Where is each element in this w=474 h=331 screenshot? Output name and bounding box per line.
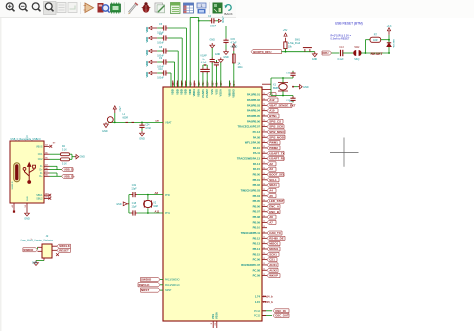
svg-text:CC1: CC1 bbox=[38, 153, 43, 156]
svg-text:27: 27 bbox=[193, 82, 197, 85]
svg-text:DFU: DFU bbox=[323, 51, 329, 55]
svg-text:1A: 1A bbox=[238, 63, 241, 66]
svg-text:LED_STAT: LED_STAT bbox=[269, 199, 284, 203]
svg-text:100nF: 100nF bbox=[157, 78, 164, 80]
svg-text:TIM4CH3/PB.11: TIM4CH3/PB.11 bbox=[241, 231, 261, 235]
svg-text:C13: C13 bbox=[339, 46, 344, 49]
svg-text:TIM2CH1/PB.03: TIM2CH1/PB.03 bbox=[241, 188, 261, 192]
svg-text:12: 12 bbox=[263, 152, 265, 154]
svg-text:12: 12 bbox=[263, 130, 265, 132]
svg-text:SDA1: SDA1 bbox=[269, 183, 277, 187]
svg-text:CC2: CC2 bbox=[38, 158, 43, 161]
svg-text:SW2: SW2 bbox=[354, 46, 360, 49]
svg-text:12: 12 bbox=[263, 221, 265, 223]
svg-text:+VDD: +VDD bbox=[230, 45, 237, 49]
svg-text:A7: A7 bbox=[269, 220, 273, 224]
svg-text:A4: A4 bbox=[269, 189, 273, 193]
svg-text:SCL1: SCL1 bbox=[269, 178, 277, 182]
svg-text:VDD: VDD bbox=[175, 89, 179, 95]
svg-text:0.1uF: 0.1uF bbox=[337, 58, 344, 61]
svg-text:12: 12 bbox=[263, 146, 265, 148]
svg-text:12: 12 bbox=[263, 258, 265, 260]
svg-text:32M: 32M bbox=[153, 206, 158, 208]
svg-text:GND: GND bbox=[210, 39, 216, 42]
svg-text:PC15: PC15 bbox=[254, 315, 261, 318]
svg-text:PC.09: PC.09 bbox=[253, 274, 261, 278]
svg-text:A12: A12 bbox=[269, 98, 275, 102]
svg-text:C10: C10 bbox=[158, 69, 163, 71]
svg-text:PA6/PB.06: PA6/PB.06 bbox=[247, 119, 261, 123]
svg-text:GND: GND bbox=[102, 130, 108, 133]
svg-text:PB.00: PB.00 bbox=[253, 173, 261, 177]
svg-text:AUX1: AUX1 bbox=[269, 263, 277, 267]
svg-text:PA.11: PA.11 bbox=[253, 151, 261, 155]
svg-text:PA.14: PA.14 bbox=[253, 162, 261, 166]
svg-text:BOOT_SEL: BOOT_SEL bbox=[269, 173, 285, 177]
svg-text:+3V3: +3V3 bbox=[118, 106, 120, 112]
svg-text:USB_D-: USB_D- bbox=[64, 168, 74, 172]
svg-text:PA3/PB.03: PA3/PB.03 bbox=[247, 103, 261, 107]
svg-text:12: 12 bbox=[263, 199, 265, 201]
svg-text:NRST: NRST bbox=[141, 288, 149, 292]
svg-text:12: 12 bbox=[263, 253, 265, 255]
svg-text:PB.12: PB.12 bbox=[253, 236, 261, 240]
svg-text:VDD: VDD bbox=[184, 89, 188, 95]
svg-text:PA.08: PA.08 bbox=[253, 135, 261, 139]
svg-text:VDD: VDD bbox=[145, 27, 149, 33]
svg-text:BTN1: BTN1 bbox=[269, 114, 277, 118]
svg-text:BUZZER/PC.07: BUZZER/PC.07 bbox=[241, 263, 260, 267]
svg-text:VSSA: VSSA bbox=[219, 89, 223, 96]
svg-text:CS1: CS1 bbox=[269, 258, 275, 262]
svg-text:GND: GND bbox=[312, 58, 318, 61]
svg-text:GND: GND bbox=[116, 204, 121, 206]
svg-text:GND: GND bbox=[80, 156, 86, 159]
svg-text:VDD: VDD bbox=[188, 89, 192, 95]
svg-text:12: 12 bbox=[263, 178, 265, 180]
svg-text:100nF: 100nF bbox=[157, 43, 164, 45]
svg-text:PB.06: PB.06 bbox=[253, 204, 261, 208]
svg-text:SW1: SW1 bbox=[295, 38, 301, 41]
svg-text:12: 12 bbox=[263, 210, 265, 212]
svg-text:12: 12 bbox=[263, 114, 265, 116]
svg-text:C19: C19 bbox=[132, 185, 137, 187]
svg-text:PB.10: PB.10 bbox=[253, 226, 261, 230]
svg-text:GND: GND bbox=[24, 218, 30, 221]
svg-text:SBU2: SBU2 bbox=[36, 197, 43, 200]
svg-text:A5: A5 bbox=[269, 194, 273, 198]
svg-text:VDDA: VDDA bbox=[197, 89, 201, 97]
svg-text:12: 12 bbox=[263, 141, 265, 143]
svg-text:PB.13: PB.13 bbox=[253, 242, 261, 246]
svg-text:VSS: VSS bbox=[210, 89, 214, 95]
svg-text:PH1: PH1 bbox=[165, 212, 170, 215]
svg-text:12: 12 bbox=[263, 215, 265, 217]
svg-text:PB.02: PB.02 bbox=[253, 183, 261, 187]
svg-text:12: 12 bbox=[263, 93, 265, 95]
svg-text:+3.3: +3.3 bbox=[387, 25, 392, 28]
svg-text:1.74: 1.74 bbox=[255, 295, 261, 299]
svg-text:SPI2_MISO: SPI2_MISO bbox=[269, 130, 285, 134]
svg-text:OSC_OUT: OSC_OUT bbox=[275, 314, 289, 318]
svg-text:12: 12 bbox=[263, 173, 265, 175]
svg-text:USB_D+: USB_D+ bbox=[64, 174, 75, 178]
svg-text:SPI2_MOSI: SPI2_MOSI bbox=[269, 135, 284, 139]
svg-text:PB.14: PB.14 bbox=[253, 247, 261, 251]
svg-text:10R: 10R bbox=[373, 39, 378, 42]
svg-text:PC14: PC14 bbox=[254, 310, 261, 313]
svg-text:PB.05: PB.05 bbox=[253, 199, 261, 203]
svg-text:VCAP1: VCAP1 bbox=[201, 89, 205, 98]
svg-text:USB RESET (BTM): USB RESET (BTM) bbox=[335, 22, 363, 26]
svg-text:12: 12 bbox=[263, 109, 265, 111]
svg-text:12: 12 bbox=[263, 274, 265, 276]
svg-text:SKQ: SKQ bbox=[354, 58, 359, 61]
svg-text:A11: A11 bbox=[155, 210, 160, 214]
svg-text:VDD: VDD bbox=[145, 37, 149, 43]
svg-text:5.1K: 5.1K bbox=[62, 164, 67, 166]
svg-text:PWM2: PWM2 bbox=[269, 146, 278, 150]
svg-text:MISO1: MISO1 bbox=[269, 242, 278, 246]
svg-text:100n: 100n bbox=[238, 67, 244, 69]
svg-text:A3: A3 bbox=[269, 167, 273, 171]
svg-text:VBUS: VBUS bbox=[228, 89, 232, 97]
svg-text:A2: A2 bbox=[269, 162, 273, 166]
svg-text:PB.15: PB.15 bbox=[253, 252, 261, 256]
svg-text:GND: GND bbox=[32, 262, 38, 265]
svg-text:12: 12 bbox=[263, 125, 265, 127]
svg-text:PA13/SWDIO: PA13/SWDIO bbox=[165, 279, 180, 282]
svg-text:PA2/PB.02: PA2/PB.02 bbox=[247, 98, 261, 102]
svg-text:12: 12 bbox=[263, 194, 265, 196]
svg-text:C18: C18 bbox=[132, 203, 137, 205]
svg-text:PB.08: PB.08 bbox=[253, 215, 261, 219]
svg-text:12: 12 bbox=[263, 104, 265, 106]
svg-text:GND: GND bbox=[215, 53, 221, 56]
svg-text:12: 12 bbox=[263, 263, 265, 265]
svg-text:C24: C24 bbox=[145, 124, 150, 126]
svg-text:PC.13: PC.13 bbox=[253, 130, 261, 134]
svg-text:CAN_TX: CAN_TX bbox=[269, 231, 281, 235]
svg-text:PC.06: PC.06 bbox=[253, 258, 261, 262]
svg-text:PB.07: PB.07 bbox=[253, 210, 261, 214]
svg-text:12: 12 bbox=[263, 269, 265, 271]
svg-text:PA4/PB.04: PA4/PB.04 bbox=[247, 109, 261, 113]
svg-text:PA5/PB.05: PA5/PB.05 bbox=[247, 114, 261, 118]
svg-text:AUX2: AUX2 bbox=[269, 268, 277, 272]
svg-text:SPI2_CS: SPI2_CS bbox=[269, 119, 281, 123]
svg-text:VCAP: VCAP bbox=[200, 55, 207, 58]
svg-text:12: 12 bbox=[263, 189, 265, 191]
svg-text:12: 12 bbox=[263, 205, 265, 207]
svg-text:TRACECLK/PE.07: TRACECLK/PE.07 bbox=[238, 125, 261, 129]
svg-text:Conn_02x02_Counter_Clockwise: Conn_02x02_Counter_Clockwise bbox=[21, 239, 54, 242]
svg-text:PWM1: PWM1 bbox=[269, 141, 278, 145]
svg-text:BOOT0_DFU: BOOT0_DFU bbox=[253, 50, 271, 54]
svg-text:12: 12 bbox=[263, 237, 265, 239]
svg-text:PB.09: PB.09 bbox=[253, 220, 261, 224]
svg-text:PA14_b: PA14_b bbox=[263, 295, 273, 299]
svg-text:12: 12 bbox=[263, 226, 265, 228]
svg-text:RESET: RESET bbox=[371, 52, 384, 56]
svg-text:VDD4: VDD4 bbox=[192, 89, 196, 97]
svg-text:12: 12 bbox=[263, 120, 265, 122]
svg-text:PA.10: PA.10 bbox=[253, 146, 261, 150]
svg-text:1.15: 1.15 bbox=[255, 300, 261, 304]
svg-text:VDD: VDD bbox=[145, 50, 149, 56]
svg-text:GND: GND bbox=[223, 56, 229, 59]
svg-text:GND: GND bbox=[27, 196, 29, 201]
svg-text:SHIELD: SHIELD bbox=[12, 181, 14, 189]
svg-text:GND: GND bbox=[303, 86, 309, 89]
svg-text:PA.15: PA.15 bbox=[253, 167, 261, 171]
svg-text:A6: A6 bbox=[269, 215, 273, 219]
svg-text:USART_RX: USART_RX bbox=[269, 157, 285, 161]
svg-text:BAT60A: BAT60A bbox=[392, 40, 395, 49]
svg-text:VDDIO: VDDIO bbox=[232, 89, 236, 98]
svg-text:VSSA: VSSA bbox=[216, 312, 219, 319]
svg-text:5.1K: 5.1K bbox=[62, 149, 67, 151]
svg-text:32: 32 bbox=[176, 82, 180, 85]
svg-text:VDD: VDD bbox=[145, 72, 149, 78]
svg-text:12: 12 bbox=[263, 162, 265, 164]
svg-text:A10: A10 bbox=[269, 109, 275, 113]
svg-text:4.7uF: 4.7uF bbox=[145, 128, 151, 130]
svg-text:12: 12 bbox=[263, 242, 265, 244]
svg-text:GND: GND bbox=[139, 138, 145, 141]
svg-text:BACK: BACK bbox=[224, 12, 232, 16]
svg-text:12: 12 bbox=[263, 98, 265, 100]
svg-text:VDD: VDD bbox=[180, 89, 184, 95]
svg-text:VDD: VDD bbox=[145, 61, 149, 67]
svg-text:12: 12 bbox=[263, 157, 265, 159]
svg-text:MOSI1: MOSI1 bbox=[269, 247, 278, 251]
svg-text:VCAP2: VCAP2 bbox=[205, 89, 209, 98]
svg-text:SWCLK: SWCLK bbox=[139, 283, 151, 287]
svg-text:4-Tak_Push: 4-Tak_Push bbox=[288, 43, 301, 45]
svg-text:4.7uF: 4.7uF bbox=[201, 62, 207, 64]
svg-text:PB.01: PB.01 bbox=[253, 178, 261, 182]
svg-text:A8: A8 bbox=[155, 191, 159, 195]
svg-text:PA14/SWCLK: PA14/SWCLK bbox=[165, 284, 180, 287]
svg-text:OSC_IN: OSC_IN bbox=[275, 309, 285, 313]
svg-text:12: 12 bbox=[263, 231, 265, 233]
svg-text:8MHz: 8MHz bbox=[273, 87, 280, 90]
svg-text:NRST: NRST bbox=[165, 289, 172, 292]
svg-text:0.3mA to RESET: 0.3mA to RESET bbox=[331, 38, 350, 41]
svg-text:PA1/PB.01: PA1/PB.01 bbox=[247, 93, 261, 97]
svg-text:SPI2_SCK: SPI2_SCK bbox=[269, 125, 284, 129]
svg-text:PH0: PH0 bbox=[165, 194, 170, 197]
svg-text:600R: 600R bbox=[123, 117, 129, 119]
svg-text:RS485_DE: RS485_DE bbox=[269, 236, 284, 240]
svg-text:VBAT_SENSE_EXT: VBAT_SENSE_EXT bbox=[269, 103, 296, 107]
svg-text:12: 12 bbox=[263, 136, 265, 138]
svg-text:12pF: 12pF bbox=[131, 188, 137, 190]
svg-text:USART_TX: USART_TX bbox=[269, 151, 284, 155]
svg-text:PB.04: PB.04 bbox=[253, 194, 261, 198]
svg-text:ENC_A: ENC_A bbox=[269, 204, 280, 208]
svg-text:PC15_b: PC15_b bbox=[263, 300, 273, 304]
svg-text:VBAT: VBAT bbox=[165, 120, 172, 124]
svg-text:USB_C_Receptacle_USB2.0: USB_C_Receptacle_USB2.0 bbox=[11, 138, 42, 141]
svg-text:SCK1: SCK1 bbox=[269, 252, 277, 256]
svg-text:12: 12 bbox=[263, 167, 265, 169]
svg-text:12: 12 bbox=[263, 183, 265, 185]
svg-text:TRACESWD/PA.13: TRACESWD/PA.13 bbox=[237, 157, 261, 161]
svg-text:WKUP: WKUP bbox=[269, 274, 278, 278]
svg-text:VSS: VSS bbox=[212, 314, 215, 319]
svg-text:VBUS: VBUS bbox=[36, 145, 43, 148]
svg-text:WFL1/PA.08: WFL1/PA.08 bbox=[245, 141, 261, 145]
svg-text:+5V: +5V bbox=[283, 29, 288, 32]
svg-text:VDD: VDD bbox=[171, 89, 175, 95]
svg-text:ENC_B: ENC_B bbox=[269, 210, 279, 214]
svg-text:SWDIO: SWDIO bbox=[141, 278, 152, 282]
svg-text:+3V3U: +3V3U bbox=[221, 16, 223, 23]
svg-text:RESET: RESET bbox=[59, 248, 69, 252]
svg-text:PC.08: PC.08 bbox=[253, 268, 261, 272]
svg-text:SWDIO: SWDIO bbox=[23, 248, 34, 252]
svg-text:12pF: 12pF bbox=[131, 207, 137, 209]
svg-text:100nF: 100nF bbox=[210, 26, 217, 28]
svg-text:12: 12 bbox=[263, 247, 265, 249]
svg-text:VSS: VSS bbox=[214, 89, 218, 95]
